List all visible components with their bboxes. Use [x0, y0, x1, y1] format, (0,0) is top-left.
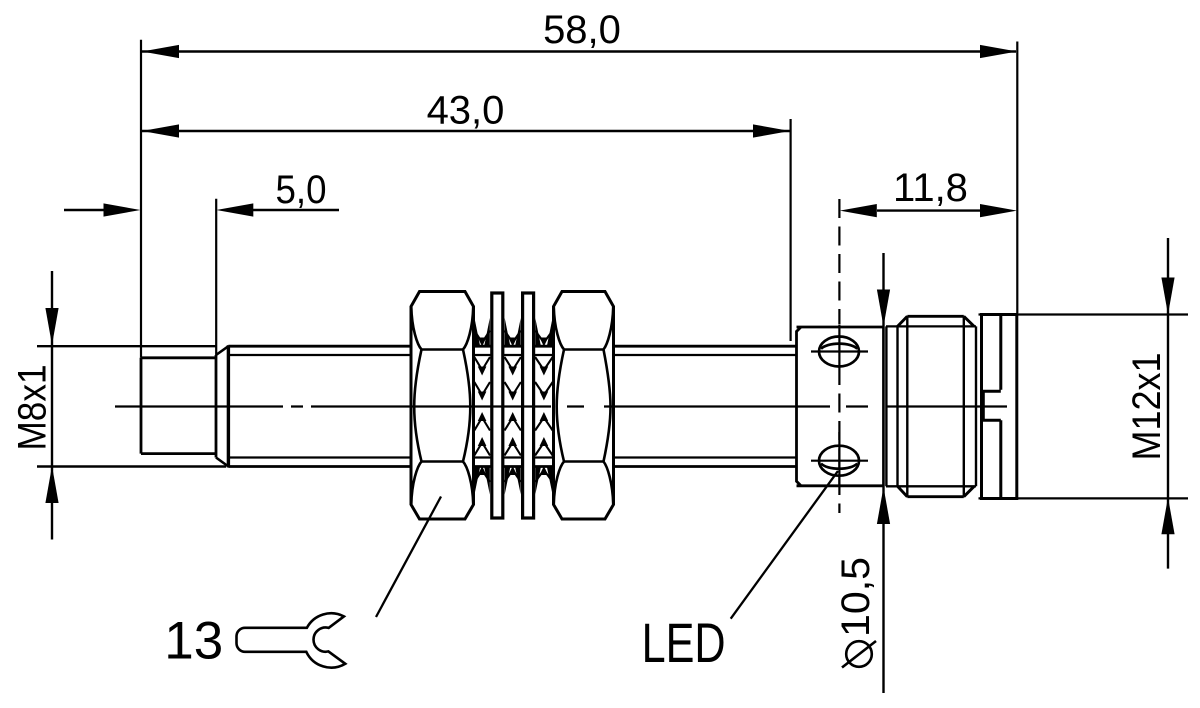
svg-text:10,5: 10,5	[834, 557, 878, 637]
svg-text:58,0: 58,0	[543, 8, 621, 52]
svg-text:13: 13	[164, 612, 223, 671]
svg-text:43,0: 43,0	[427, 89, 505, 133]
svg-text:5,0: 5,0	[276, 168, 327, 212]
svg-text:M12x1: M12x1	[1125, 353, 1169, 461]
svg-text:LED: LED	[642, 611, 726, 674]
svg-text:11,8: 11,8	[893, 166, 968, 210]
svg-text:M8x1: M8x1	[11, 365, 55, 451]
